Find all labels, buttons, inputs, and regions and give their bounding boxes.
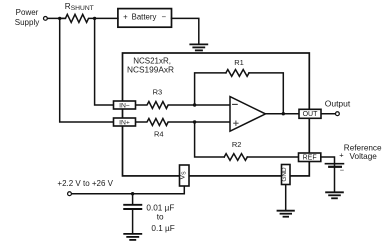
wire: op-amp output to OUT pin — [266, 113, 300, 115]
wire: RSHUNT to battery — [95, 17, 118, 19]
svg-text:to: to — [157, 213, 164, 222]
wire: supply terminal to VS pin — [72, 186, 185, 194]
svg-text:OUT: OUT — [303, 111, 319, 118]
svg-text:+: + — [339, 150, 344, 159]
ground (GND pin) — [278, 211, 294, 217]
pin REF — [299, 153, 321, 162]
wire: OUT pin to output terminal — [321, 113, 335, 115]
capacitor C1 plates — [124, 205, 141, 209]
svg-text:NCS199AxR: NCS199AxR — [127, 64, 174, 74]
wire: shunt right junction to IN- pin — [95, 18, 114, 105]
wire: R4 node to op-amp non-inverting input — [195, 121, 230, 123]
svg-text:−: − — [340, 166, 345, 175]
svg-text:−: − — [162, 13, 167, 22]
resistor R3 — [136, 102, 195, 109]
svg-text:R3: R3 — [153, 88, 163, 97]
svg-text:R4: R4 — [154, 130, 164, 139]
resistor RSHUNT — [60, 14, 95, 22]
svg-text:+: + — [123, 13, 128, 22]
wire: R3 node to op-amp inverting input — [195, 104, 230, 106]
svg-text:GND: GND — [281, 167, 288, 182]
node: shunt right junction — [93, 17, 96, 20]
svg-text:0.01 µF: 0.01 µF — [146, 203, 174, 212]
battery: reference voltage source — [326, 164, 344, 167]
pin GND — [281, 165, 290, 185]
svg-text:IN−: IN− — [119, 102, 130, 109]
pin IN- — [114, 101, 136, 109]
wire: R2 branch down from non-inverting node — [195, 122, 225, 157]
svg-text:R2: R2 — [232, 140, 242, 149]
terminal: supply voltage — [68, 192, 72, 196]
terminal: power supply — [44, 17, 48, 21]
svg-text:IN+: IN+ — [119, 119, 130, 126]
wire: feedback branch up from inverting node — [195, 73, 226, 105]
svg-text:R1: R1 — [234, 58, 244, 67]
svg-text:REF: REF — [303, 155, 317, 162]
ground (battery) — [190, 44, 207, 50]
op-amp non-inverting input marker — [234, 121, 238, 125]
ground (bypass capacitor) — [124, 234, 141, 240]
node: output junction — [282, 112, 285, 115]
pin IN+ — [114, 118, 136, 126]
svg-text:Output: Output — [325, 98, 351, 108]
wire: shunt left junction to IN+ pin — [60, 18, 114, 122]
op-amp inverting input marker — [233, 103, 238, 105]
capacitor C1 top lead — [132, 194, 134, 205]
svg-text:Voltage: Voltage — [350, 152, 378, 161]
wire: R1 to output node — [249, 73, 283, 114]
svg-text:0.1 µF: 0.1 µF — [151, 224, 174, 233]
resistor R2 — [224, 154, 247, 161]
op-amp IC U1 boundary box NCS21xR — [123, 53, 310, 176]
ground (reference voltage) — [326, 192, 343, 198]
node: non-inverting input junction — [193, 120, 196, 123]
wire: REF pin to reference voltage source — [321, 157, 335, 192]
wire: battery to ground — [172, 18, 199, 44]
node: bypass capacitor junction — [131, 192, 134, 195]
wire: R2 to REF pin — [247, 156, 298, 158]
op-amp U1 triangle — [230, 97, 266, 132]
resistor R1 — [226, 70, 249, 77]
svg-text:+2.2 V to +26 V: +2.2 V to +26 V — [57, 179, 113, 188]
resistor R4 — [136, 119, 195, 126]
pin OUT — [299, 109, 321, 118]
wire: power terminal to RSHUNT — [48, 17, 66, 19]
pin VS — [177, 165, 189, 186]
node: shunt left junction — [58, 17, 61, 20]
svg-text:Battery: Battery — [132, 13, 157, 22]
svg-text:Supply: Supply — [15, 18, 39, 27]
battery B1 — [118, 9, 172, 28]
terminal: output — [336, 112, 340, 116]
node: inverting input junction — [193, 103, 196, 106]
wire: GND pin to ground — [285, 183, 287, 210]
svg-text:Power: Power — [16, 8, 39, 17]
capacitor C1 bottom lead — [132, 209, 134, 233]
